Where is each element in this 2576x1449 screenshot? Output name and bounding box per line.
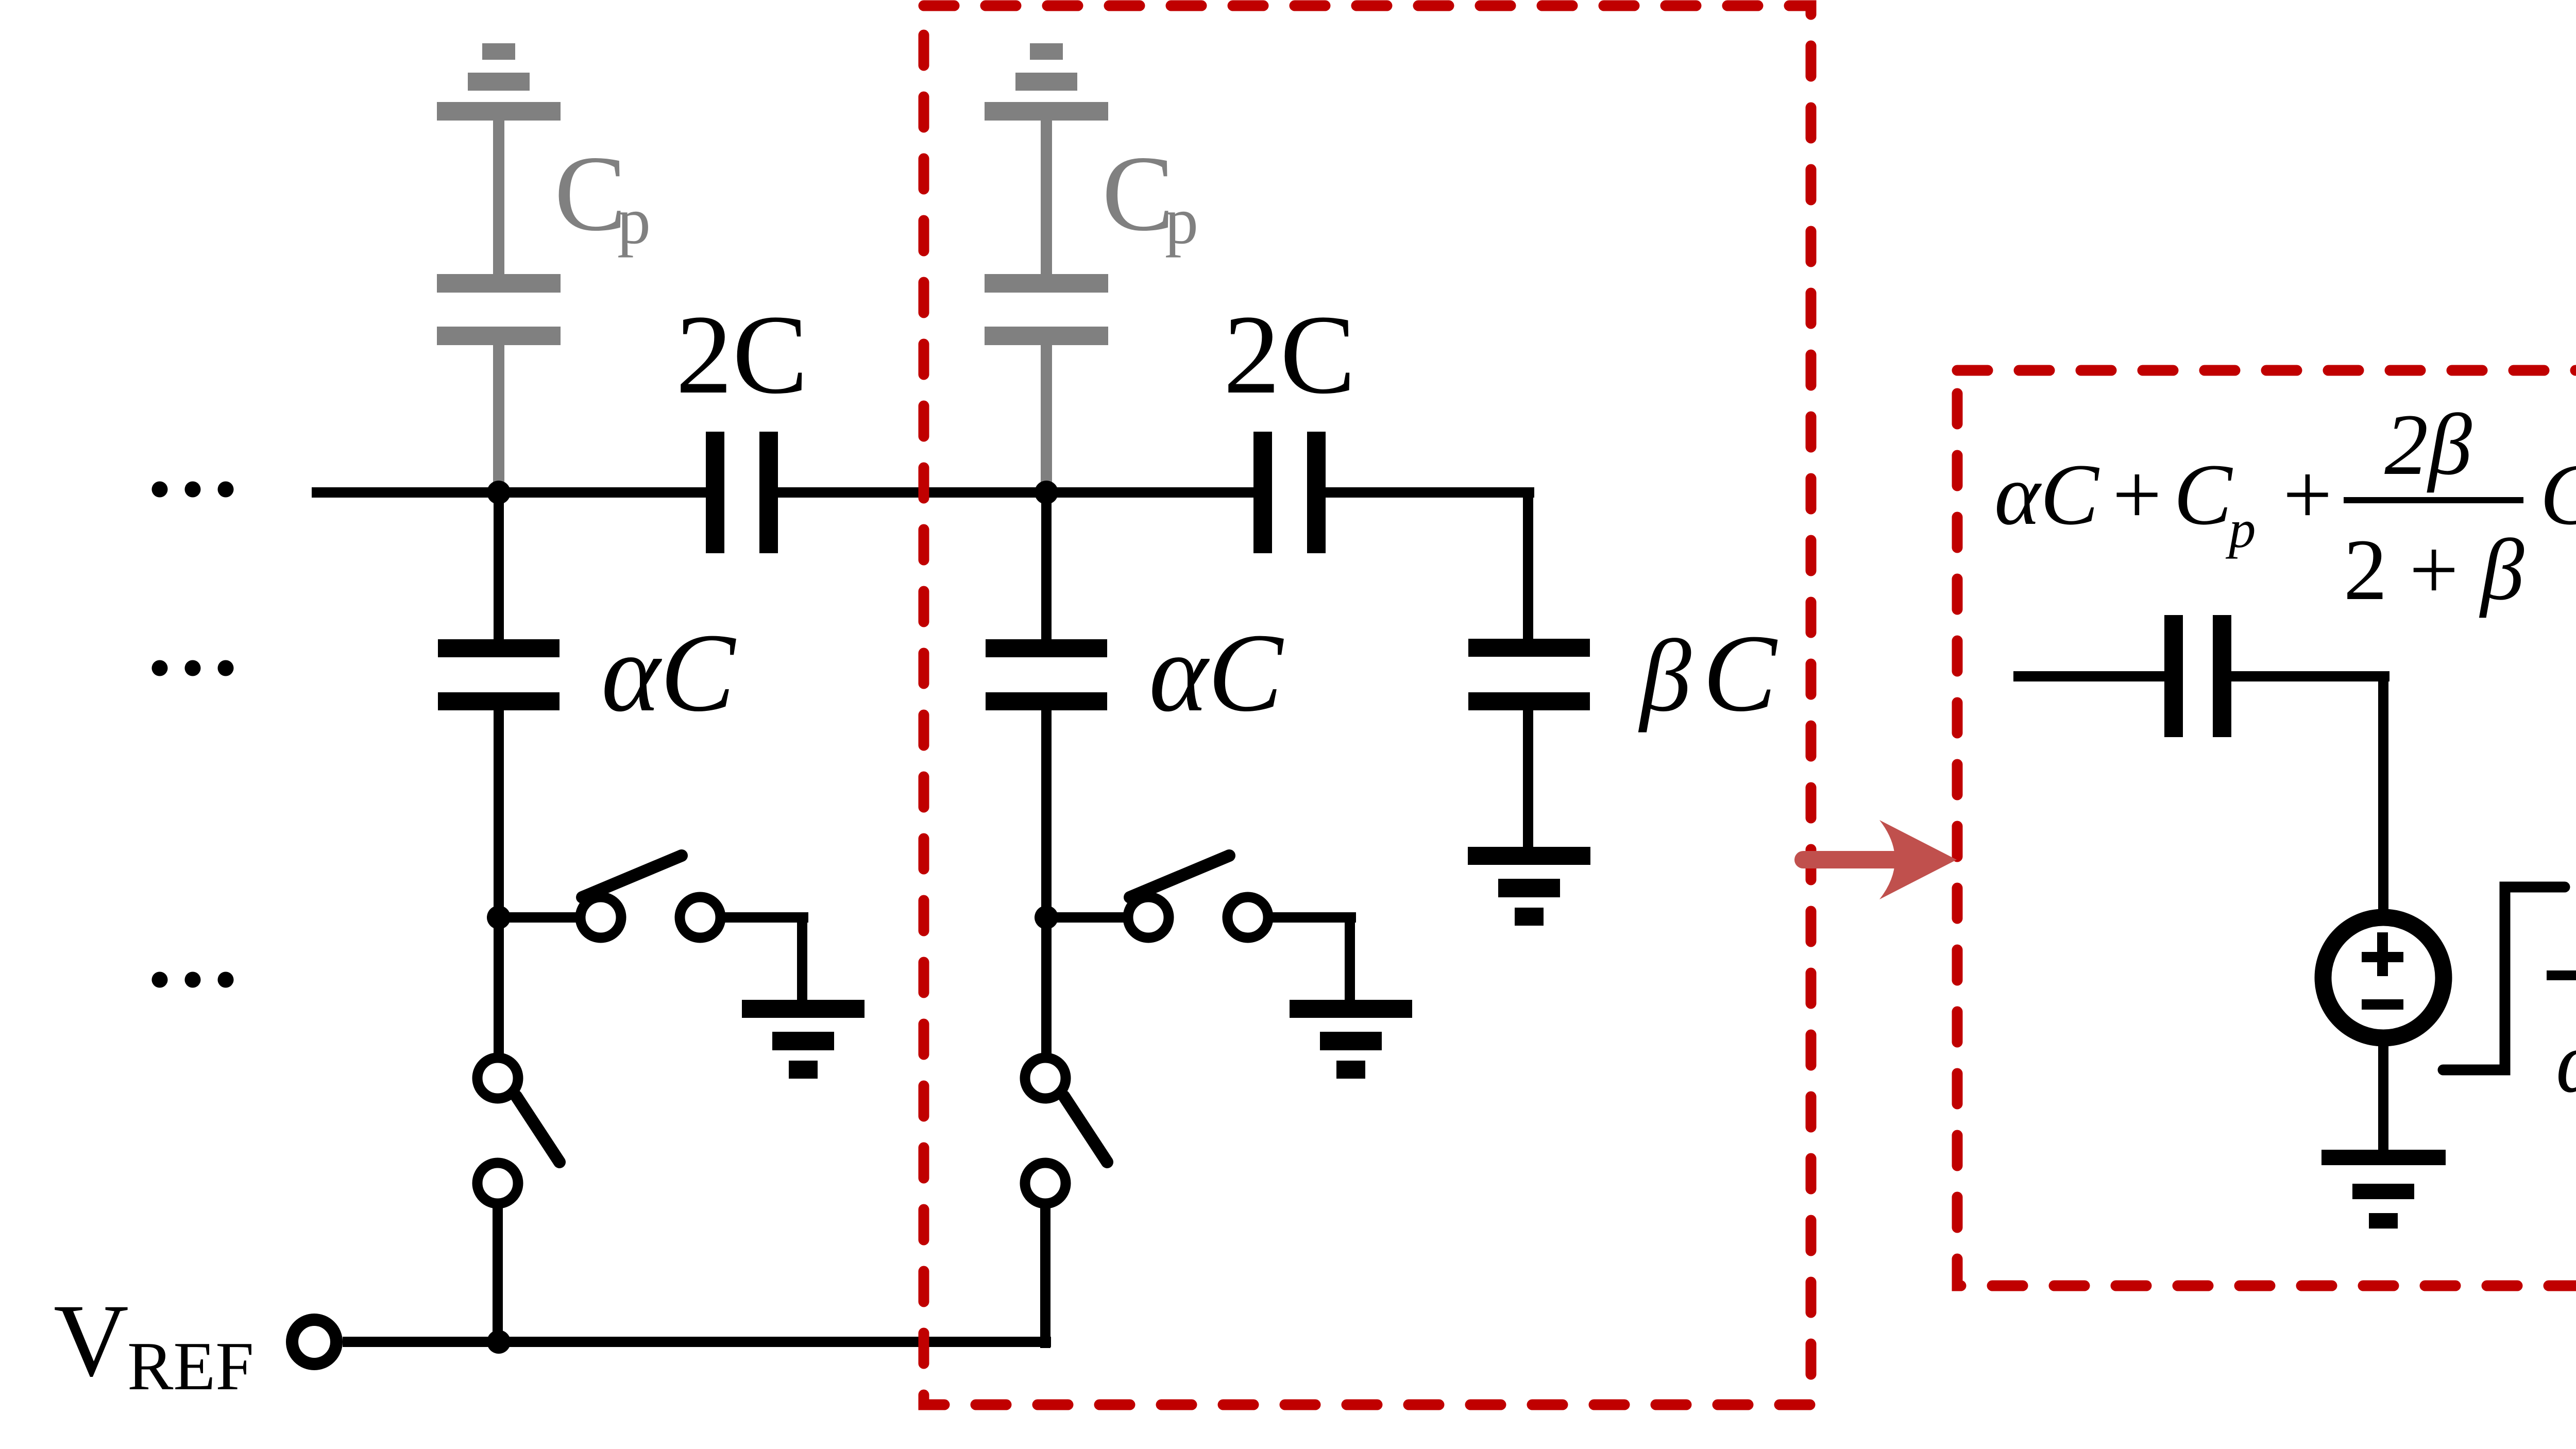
svg-text:2β: 2β [2384,396,2472,493]
svg-text:V: V [54,1283,129,1398]
switch S1 contact b (cell 2) [1228,897,1268,938]
switch S2 contact a (cell 1) [478,1058,518,1099]
svg-text:αC: αC [1149,611,1284,735]
svg-text:C: C [2540,446,2576,543]
ground (cell 1) S1 [742,1000,865,1079]
arrow (equivalence) [1803,820,1957,899]
svg-text:β: β [1638,619,1691,733]
source V1 minus sign [2362,999,2403,1010]
capacitor alphaC (cell 1) [438,639,560,710]
wire S2 to VREF rail (cell 2) [1040,1207,1050,1348]
terminal VREF [292,1320,336,1364]
svg-text:p: p [2225,499,2256,559]
ground (parasitic, inverted) (cell 2) [985,43,1108,121]
label Cp (cell 1) [554,134,651,258]
wire betaC to ground [1523,710,1533,847]
formula capacitor value [1994,396,2576,618]
formula source value [2547,860,2576,1169]
switch S1 lever (cell 2) [1130,856,1229,897]
wire eq cap left [2013,671,2164,681]
wire main top rail segment 2 [778,487,1253,498]
ellipsis dots row 3 [152,972,234,988]
capacitor equivalent [2164,615,2231,737]
svg-text:p: p [617,184,651,258]
label Cp (cell 2) [1102,134,1198,258]
wire (cell 2) ground to Cp [1041,121,1052,276]
wire switch node down (cell 2) [1041,917,1052,1054]
wire to ground switch (cell 1) [499,912,577,923]
svg-text:REF: REF [127,1328,254,1404]
ground (parasitic, inverted) (cell 1) [437,43,561,121]
svg-text:αC: αC [2556,1014,2576,1111]
wire S1 to ground (cell 1) [724,912,808,1000]
wire S1 to ground (cell 2) [1272,912,1356,1000]
label 2C (cell 2) [1224,292,1356,417]
ellipsis dots row 2 [152,660,234,676]
svg-text:+: + [2283,446,2332,543]
source V1 (circle) [2323,917,2444,1038]
switch S2 contact a (cell 2) [1025,1058,1066,1099]
node switch junction (cell 2) [1035,906,1058,929]
wire node to alphaC (cell 1) [494,492,504,639]
wire 2C to betaC corner [1523,492,1533,639]
svg-text:C: C [1703,611,1778,735]
node A (cell 1 top) [487,481,511,504]
label betaC [1638,611,1778,735]
source V1 plus sign [2362,932,2403,976]
wire switch node down (cell 1) [494,917,504,1054]
capacitor betaC [1468,639,1590,710]
wire eq cap right + corner down [2231,671,2389,910]
svg-text:2C: 2C [676,292,808,417]
wire S2 to VREF rail (cell 1) [493,1207,503,1342]
node B (cell 2 top) [1035,481,1058,504]
wire to ground switch (cell 2) [1046,912,1124,923]
label 2C (cell 1) [676,292,808,417]
wire alphaC to switch node (cell 2) [1041,710,1052,917]
svg-text:p: p [1165,184,1198,258]
wire (cell 2) Cp to node [1041,345,1052,499]
switch S2 lever (cell 2) [1064,1096,1107,1162]
switch S1 contact b (cell 1) [680,897,721,938]
switch S1 contact a (cell 2) [1128,897,1169,938]
label alphaC (cell 1) [601,611,736,735]
dashed box (repeated cell) [924,6,1811,1405]
ellipsis dots row 1 [152,482,234,498]
wire main top rail segment 1 [312,487,706,498]
wire alphaC to switch node (cell 1) [494,710,504,917]
ground betaC [1468,847,1590,926]
ground equivalent [2321,1150,2446,1229]
svg-text:C: C [554,134,626,253]
wire node to alphaC (cell 2) [1041,492,1052,639]
switch S2 contact b (cell 1) [478,1163,518,1204]
capacitor 2C (cell 2) [1253,432,1326,553]
wire source to ground [2378,1046,2388,1150]
switch S2 lever (cell 1) [516,1096,560,1162]
wire main top rail segment 3 [1326,487,1534,498]
capacitor 2C (cell 1) [706,432,778,553]
ground (cell 2) S1 [1290,1000,1412,1079]
label alphaC (cell 2) [1149,611,1284,735]
capacitor Cp (cell 1) [437,274,561,345]
svg-text:2 + β: 2 + β [2344,521,2524,618]
wire (cell 1) ground to Cp [493,121,504,276]
svg-text:αC: αC [601,611,736,735]
svg-text:C: C [1102,134,1174,253]
dashed box (equivalent circuit) [1957,370,2576,1286]
capacitor alphaC (cell 2) [986,639,1107,710]
svg-text:+: + [2112,446,2162,543]
capacitor Cp (cell 2) [985,274,1108,345]
switch S1 contact a (cell 1) [581,897,621,938]
label VREF [54,1283,254,1404]
svg-text:2C: 2C [1224,292,1356,417]
svg-text:C: C [2174,446,2233,543]
node VREF junction [487,1330,511,1354]
wire (cell 1) Cp to node [493,345,504,499]
step waveform symbol [2443,887,2565,1070]
switch S2 contact b (cell 2) [1025,1163,1066,1204]
svg-text:αC: αC [1994,446,2099,543]
wire VREF rail [343,1337,1051,1347]
switch S1 lever (cell 1) [582,856,682,897]
node switch junction (cell 1) [487,906,511,929]
